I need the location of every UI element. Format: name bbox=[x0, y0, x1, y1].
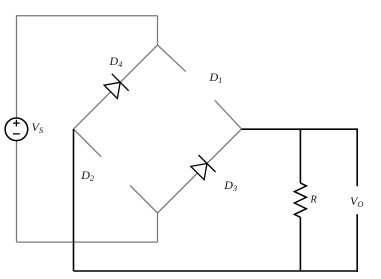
voltage source plus sign bbox=[13, 120, 20, 127]
wire VO top lead bbox=[356, 129, 358, 186]
wire top vertex drop bbox=[157, 16, 159, 45]
wire left lower bbox=[16, 141, 18, 243]
wire left upper bbox=[16, 15, 18, 118]
svg-text:VO: VO bbox=[350, 194, 363, 209]
wire R bottom lead bbox=[299, 217, 301, 271]
wire D2 upper segment bbox=[74, 129, 102, 157]
svg-text:D2: D2 bbox=[80, 168, 95, 183]
wire bottom vertex drop bbox=[157, 213, 159, 242]
wire left vertex drop bbox=[73, 129, 75, 271]
wire bridge edge bottom-right bbox=[158, 129, 242, 213]
wire source bottom rail bbox=[17, 241, 158, 243]
wire bridge edge top-left bbox=[74, 45, 158, 129]
wire R top lead bbox=[299, 129, 301, 183]
diode D4 bbox=[104, 74, 129, 99]
svg-text:D3: D3 bbox=[223, 178, 237, 193]
wire D1 lower segment bbox=[215, 100, 242, 129]
wire D1 upper segment bbox=[158, 45, 186, 72]
wire VO bottom lead bbox=[356, 214, 358, 272]
wire D2 lower segment bbox=[130, 185, 158, 213]
svg-text:VS: VS bbox=[32, 120, 44, 135]
wire top rail bbox=[17, 15, 158, 17]
wire right rail bbox=[242, 128, 359, 130]
svg-text:R: R bbox=[309, 195, 317, 206]
voltage source VS circle bbox=[5, 118, 28, 141]
diode D3 bbox=[191, 155, 216, 180]
voltage source minus sign bbox=[13, 133, 20, 135]
svg-text:D4: D4 bbox=[109, 54, 124, 69]
wire load bottom rail bbox=[74, 270, 359, 272]
resistor R bbox=[294, 183, 306, 217]
svg-text:D1: D1 bbox=[209, 70, 223, 85]
